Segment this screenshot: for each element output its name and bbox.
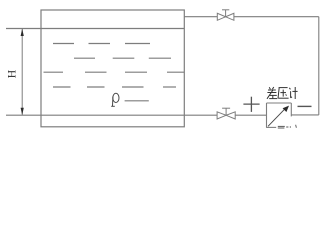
liquid dashes row 5 — [125, 100, 149, 102]
dimension line H — [21, 29, 23, 115]
bottom tap line / dimension extension (bottom) — [6, 114, 217, 116]
wire: right pipe to gauge — [291, 114, 319, 116]
tank T1 — [41, 10, 184, 127]
liquid dashes row 1 — [53, 43, 150, 45]
label rho (drawn) — [111, 93, 119, 106]
gauge needle — [268, 109, 285, 126]
wire: pipe valve V2 to gauge — [235, 114, 266, 116]
valve V2 — [217, 108, 235, 119]
gauge needle arrowhead — [283, 106, 289, 112]
liquid surface line / dimension extension (top) — [6, 28, 184, 30]
box bottom scan artifacts — [278, 126, 289, 128]
svg-text:H: H — [4, 69, 18, 78]
dimension arrow down — [21, 108, 24, 115]
liquid dashes row 3 — [44, 71, 185, 73]
label 差压计 char 计 — [289, 87, 297, 99]
label 差压计 char 压 — [278, 88, 289, 99]
gauge U1 box (right/bottom edges partly faded in scan) — [266, 103, 291, 128]
dimension arrow up — [21, 29, 24, 36]
valve V1 — [217, 10, 234, 20]
liquid dashes row 2 — [74, 57, 171, 59]
wire: right down pipe — [318, 17, 320, 115]
wire: top pipe tank to valve V1 — [184, 16, 217, 18]
label 差压计 char 差 — [267, 87, 277, 99]
wire: top pipe valve V1 to corner — [234, 16, 319, 18]
plus sign (high pressure tap) — [243, 97, 259, 112]
minus sign (low pressure tap) — [298, 105, 312, 107]
liquid dashes row 4 — [53, 86, 176, 88]
